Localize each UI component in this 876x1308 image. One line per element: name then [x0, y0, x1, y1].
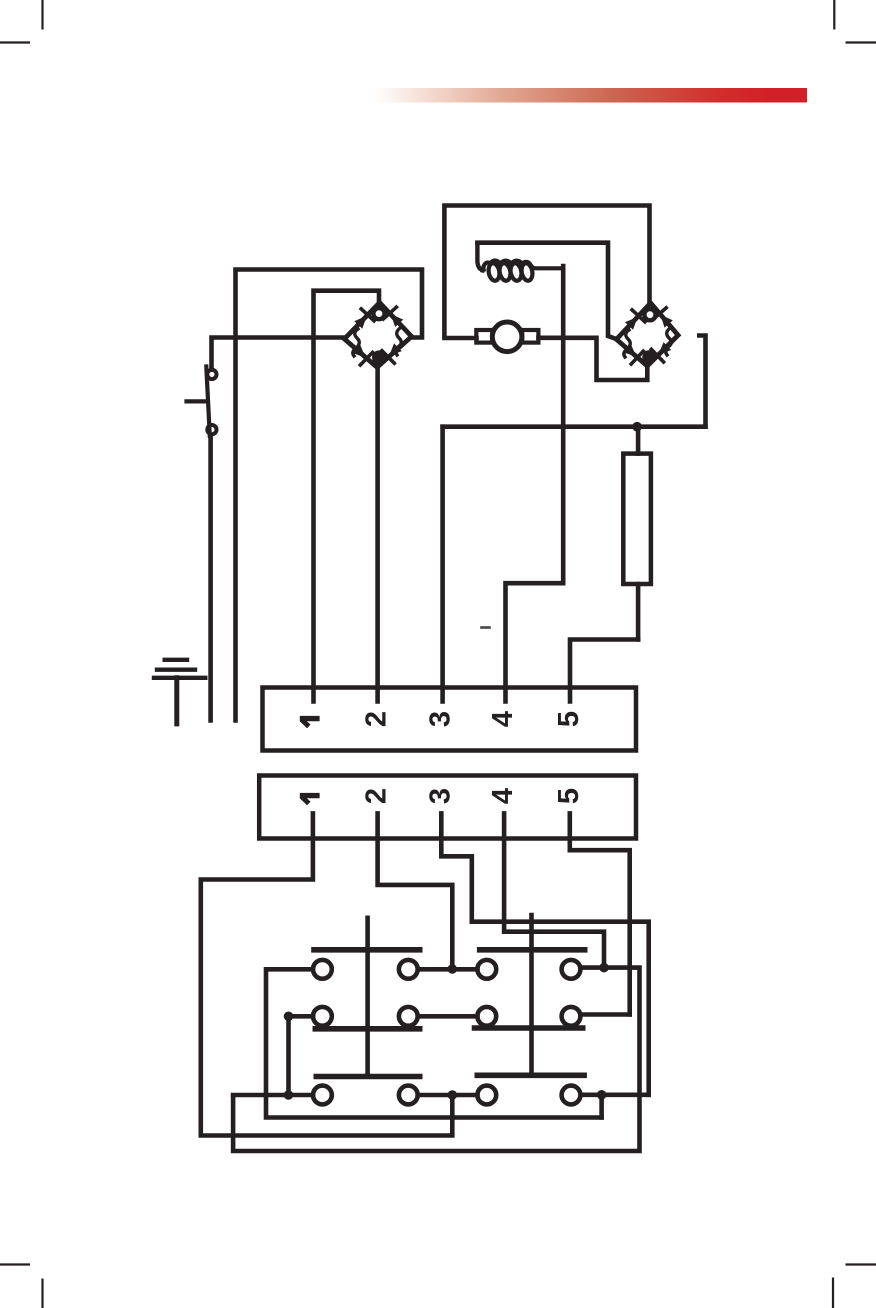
switch S2 shaft [365, 918, 370, 1077]
wire: contact B1 stub with junction down to C1 stub [289, 1016, 314, 1095]
contact A1 [313, 960, 332, 979]
wire: bridge D1 left vertex to switch S1 [212, 338, 346, 370]
switch S3 rocker bar bottom-right [477, 1073, 584, 1079]
wire: contact C1 stub left [233, 1093, 313, 1098]
wire: right loop (motor left around top to bridge D2 top vertex) [444, 206, 649, 339]
wire 2 lower: TB2 terminal 2 to contacts A2/A3 [378, 813, 453, 969]
svg-text:2: 2 [361, 711, 393, 727]
motor M1 [476, 322, 538, 352]
TB1 pin label 1 [300, 719, 320, 727]
switch S3 rocker bar top-right [480, 947, 585, 953]
crop mark top-right [834, 0, 876, 43]
D2 diode lower-right [651, 340, 673, 362]
wire 5: resistor R1 bottom to TB1 terminal 5 [570, 640, 638, 702]
wire: contact C4 stub right with junction down to A1 run [581, 1095, 649, 1118]
switch S1 [187, 367, 217, 437]
D1 diode lower-right [382, 341, 404, 363]
terminal strip TB2 [259, 776, 636, 839]
wire: bridge D2 right vertex hook down [699, 336, 705, 427]
wire 2: bridge D1 minus terminal to TB1 terminal 2 [375, 367, 380, 702]
switch S3 shaft [529, 915, 534, 1075]
svg-text:4: 4 [487, 711, 519, 727]
switch S3 rocker bar middle-right [475, 1025, 583, 1031]
junction dot C2-C3 link [448, 1090, 458, 1100]
contact C2 [399, 1086, 418, 1105]
battery BT1 [154, 660, 205, 724]
contact B3 [477, 1007, 496, 1026]
wire: left loop (terminal wire up, across top, down to bridge D1 right vertex) [236, 270, 423, 721]
resistor R1 [623, 427, 651, 640]
crop mark top-left [0, 0, 43, 43]
wire 3 lower: TB2 terminal 3 to contact C4 stub [441, 813, 648, 1094]
wire: contact A1 stub left, down and across to C4 node [266, 969, 602, 1117]
crop mark bottom-right [833, 1265, 876, 1308]
contact C1 [313, 1086, 332, 1105]
contact A2 [399, 960, 418, 979]
scan speck [482, 626, 490, 629]
inductor L1 [477, 244, 563, 282]
contact A4 [562, 960, 581, 979]
contact A3 [477, 960, 496, 979]
wire: contact B4 stub right [580, 1012, 629, 1017]
svg-text:3: 3 [424, 711, 456, 727]
wire 4: inductor L1 down, jog, to TB1 terminal 4 [506, 266, 564, 702]
contact B4 [562, 1007, 581, 1026]
switch S2 rocker bar bottom-left [316, 1074, 419, 1080]
D1 AC squiggle left [353, 329, 359, 356]
wire: contact A4 stub right, down, bottom run left [233, 968, 639, 1151]
wire: motor M1 right to bridge D2 bottom vertex [539, 338, 648, 380]
junction dot C4 stub [597, 1090, 607, 1100]
wire: switch S1 down to lower dead end [208, 435, 213, 721]
D2 diode upper-right [653, 308, 675, 330]
svg-text:5: 5 [553, 711, 585, 727]
svg-text:5: 5 [553, 788, 585, 804]
contact B1 [313, 1007, 332, 1026]
D2 AC squiggle left [624, 330, 630, 357]
junction dot A2-A3 link [448, 964, 458, 974]
contact B2 [399, 1007, 418, 1026]
D1 AC squiggle right [396, 328, 402, 355]
wire 3: node bus to TB1 terminal 3 [443, 427, 706, 702]
D2 AC squiggle right [666, 328, 672, 355]
contact C3 [477, 1086, 496, 1105]
wire 1 lower: TB2 terminal 1 to switch matrix left feed [201, 813, 452, 1135]
svg-text:2: 2 [361, 788, 393, 804]
wire: inner loop top to bridge D2 left vertex [477, 243, 616, 339]
wire: link B2 to B3 [418, 1014, 478, 1019]
D2 diode lower-left [621, 342, 643, 364]
wire 4 lower: TB2 terminal 4 to contact A4 node [504, 813, 604, 967]
junction dot at resistor top node [632, 422, 642, 432]
D1 diode lower-left [350, 343, 372, 365]
wire 1: bridge D1 plus terminal to TB1 terminal 1 [314, 291, 380, 702]
bridge rectifier D1 [344, 303, 411, 368]
junction dot B1 stub [284, 1012, 294, 1022]
wire: link C2 to C3 [418, 1093, 478, 1098]
wire 5 lower: TB2 terminal 5 to contact B4 stub [570, 813, 630, 1014]
junction dot C1 stub [284, 1090, 294, 1100]
switch S2 rocker bar top-left [314, 947, 420, 953]
bridge rectifier D2 [616, 303, 678, 366]
TB2 pin label 1 [300, 796, 320, 804]
D1 diode upper-left [352, 309, 374, 331]
terminal strip TB1 [263, 688, 637, 751]
contact C4 [562, 1086, 581, 1105]
switch S2 rocker bar middle-left [315, 1026, 419, 1032]
red header bar [373, 88, 807, 103]
junction dot A4 stub [599, 963, 609, 973]
svg-text:3: 3 [424, 788, 456, 804]
D1 diode upper-right [383, 307, 405, 329]
svg-text:4: 4 [487, 788, 519, 804]
D2 diode upper-left [623, 310, 645, 332]
crop mark bottom-left [0, 1265, 43, 1308]
wire: link A2 to A3 [418, 967, 478, 972]
